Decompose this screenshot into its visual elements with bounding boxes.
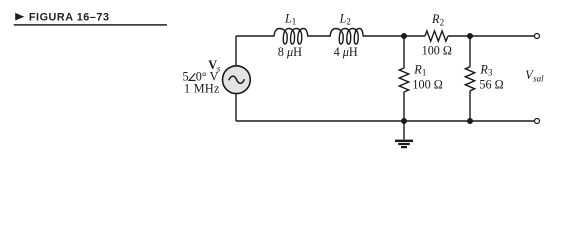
svg-text:100 Ω: 100 Ω — [422, 44, 452, 58]
svg-text:2: 2 — [440, 17, 445, 27]
svg-text:1 MHz: 1 MHz — [184, 82, 220, 96]
svg-text:sal: sal — [533, 73, 544, 83]
svg-text:2: 2 — [346, 16, 351, 26]
svg-text:8 μH: 8 μH — [278, 45, 302, 59]
svg-text:4 μH: 4 μH — [334, 45, 358, 59]
svg-text:L: L — [284, 12, 292, 26]
svg-text:L: L — [339, 12, 347, 26]
svg-text:1: 1 — [422, 68, 427, 78]
svg-text:FIGURA 16–73: FIGURA 16–73 — [29, 11, 110, 23]
svg-text:3: 3 — [488, 68, 493, 78]
svg-text:56 Ω: 56 Ω — [479, 78, 503, 92]
svg-text:1: 1 — [292, 16, 297, 26]
svg-text:100 Ω: 100 Ω — [412, 78, 442, 92]
